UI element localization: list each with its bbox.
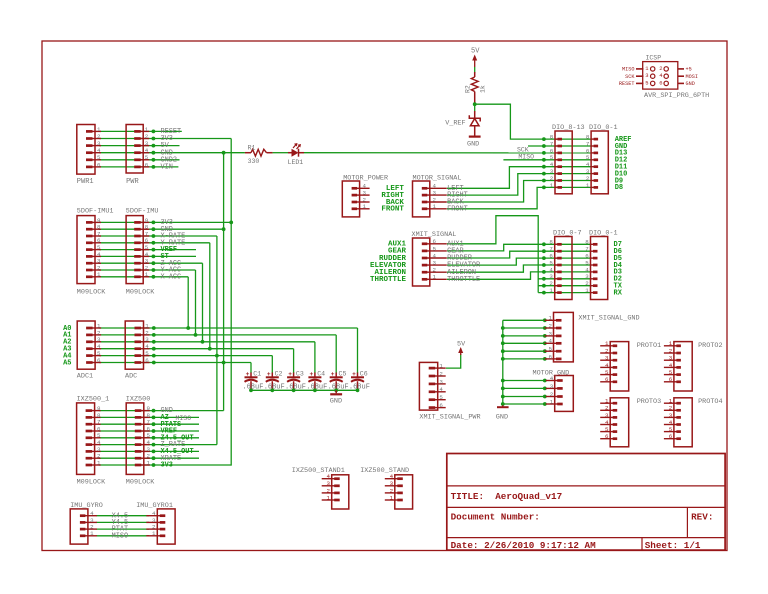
svg-text:1: 1 xyxy=(147,459,151,466)
label PWR xyxy=(126,178,139,186)
label PWR1 xyxy=(77,178,94,186)
svg-text:IXZ500: IXZ500 xyxy=(126,395,150,403)
wire MISO to DIO pin 5 xyxy=(503,159,591,161)
svg-text:1: 1 xyxy=(669,398,673,405)
svg-text:6: 6 xyxy=(97,161,101,168)
svg-text:C3: C3 xyxy=(296,370,304,377)
svg-text:5: 5 xyxy=(669,369,673,376)
label C6 xyxy=(360,370,368,377)
wire X-RATE vertical xyxy=(216,236,218,445)
wire drop to C2 xyxy=(271,356,273,373)
wire 5DOF-IMU net wires xyxy=(99,222,231,276)
svg-text:MISO: MISO xyxy=(112,532,129,540)
wire IMU_GYRO to IMU_GYRO1 xyxy=(96,516,149,536)
capacitor C3 xyxy=(287,371,300,390)
svg-text:THROTTLE: THROTTLE xyxy=(370,276,407,284)
svg-text:4: 4 xyxy=(669,419,673,426)
svg-text:FRONT: FRONT xyxy=(381,206,404,214)
svg-text:3: 3 xyxy=(605,355,609,362)
svg-text:SCK: SCK xyxy=(625,74,635,80)
connector PWR1 xyxy=(77,125,101,175)
svg-text:TITLE: AeroQuad_v17: TITLE: AeroQuad_v17 xyxy=(451,491,563,502)
svg-text:5: 5 xyxy=(605,426,609,433)
label PROTO4 xyxy=(698,398,722,406)
ICSP net labels MISO SCK RESET xyxy=(619,67,635,88)
label DIO_0-7 xyxy=(553,229,582,237)
svg-text:1: 1 xyxy=(90,530,94,537)
svg-text:MOTOR_GND: MOTOR_GND xyxy=(533,369,570,377)
net labels 5DOF signals xyxy=(161,219,186,281)
svg-text:6: 6 xyxy=(605,376,609,383)
svg-text:MISO: MISO xyxy=(518,154,534,161)
label M09LOCK (IXZ500_1) xyxy=(77,479,106,487)
svg-text:1: 1 xyxy=(152,530,156,537)
connector PWR xyxy=(126,125,149,174)
connector XMIT_SIGNAL_GND xyxy=(545,312,574,362)
svg-text:1: 1 xyxy=(145,271,149,278)
junction dots capacitor rail xyxy=(249,388,359,392)
wire AREF net to DIO_8-13 pin 8 xyxy=(475,104,591,139)
svg-text:+: + xyxy=(267,371,271,378)
svg-text:2: 2 xyxy=(433,267,437,274)
svg-text:5: 5 xyxy=(549,346,553,353)
svg-text:ICSP: ICSP xyxy=(646,54,662,61)
svg-text:VIN: VIN xyxy=(161,164,173,172)
power 5V symbol (AREF supply) xyxy=(471,48,480,67)
wire drop to C1 xyxy=(250,363,252,374)
svg-text:1: 1 xyxy=(586,182,590,189)
wire ADC net wires to capacitors xyxy=(99,328,358,363)
label XMIT_SIGNAL_PWR xyxy=(419,414,480,422)
capacitor C4 xyxy=(308,371,321,390)
svg-text:5V: 5V xyxy=(471,48,480,56)
svg-text:GND: GND xyxy=(467,140,479,148)
svg-text:+5: +5 xyxy=(686,67,692,73)
wire ELEVATOR to D5 xyxy=(447,258,591,265)
label DIO_8-13 xyxy=(552,124,585,132)
label ADC1 xyxy=(77,373,93,381)
connector PROTO3 xyxy=(600,398,629,447)
title block Document Number xyxy=(451,512,540,523)
connector IXZ500_1 xyxy=(77,403,101,475)
svg-text:3: 3 xyxy=(605,412,609,419)
svg-text:PROTO1: PROTO1 xyxy=(637,342,661,350)
label SCK xyxy=(517,147,529,154)
title block frame xyxy=(447,454,725,551)
capacitor C5 xyxy=(330,371,343,390)
wire drop to C4 xyxy=(314,342,316,373)
svg-text:3: 3 xyxy=(669,412,673,419)
svg-text:3: 3 xyxy=(97,140,101,147)
svg-text:2: 2 xyxy=(97,133,101,140)
svg-text:1: 1 xyxy=(327,494,331,501)
wire LED1 to SCK pin (D13) xyxy=(304,152,591,154)
net labels IXZ500 signals xyxy=(161,407,194,469)
svg-text:C1: C1 xyxy=(253,370,261,377)
wire X-ACC vertical xyxy=(187,277,189,328)
value .68uF C6 xyxy=(349,384,370,392)
label IXZ500 xyxy=(126,395,150,403)
svg-text:6: 6 xyxy=(659,79,662,86)
svg-text:5DOF-IMU1: 5DOF-IMU1 xyxy=(77,208,114,216)
svg-text:DIO_0-1: DIO_0-1 xyxy=(589,229,618,237)
wire TX RX stubs xyxy=(538,279,590,293)
label AVR_SPI_PRG_6PTH xyxy=(644,92,709,100)
label ICSP xyxy=(646,54,662,61)
value .68uF C1 xyxy=(242,384,263,392)
wire GND bus vertical xyxy=(223,153,225,411)
svg-text:5V: 5V xyxy=(457,340,466,348)
svg-text:1: 1 xyxy=(390,494,394,501)
value 330 xyxy=(248,158,260,165)
wire MOTOR_GND pin wires xyxy=(503,381,545,405)
net labels LEFT RIGHT BACK FRONT (motor power) xyxy=(381,185,404,214)
junction R2-zener node xyxy=(473,102,477,106)
junction dots ADC verticals xyxy=(186,326,219,357)
power 5V symbol (xmit pwr) xyxy=(457,340,466,355)
svg-text:3: 3 xyxy=(439,378,443,385)
junction GND bus taps xyxy=(222,151,226,365)
svg-text:V_REF: V_REF xyxy=(445,120,465,128)
svg-text:Date: 2/26/2010 9:17:12 AM: Date: 2/26/2010 9:17:12 AM xyxy=(451,540,596,551)
svg-text:6: 6 xyxy=(549,353,553,360)
wire XMIT_SIGNAL_PWR pin1 to 5V xyxy=(446,354,461,368)
svg-text:6: 6 xyxy=(433,238,437,245)
label C3 xyxy=(296,370,304,377)
value .68uF C2 xyxy=(264,384,285,392)
svg-text:AVR_SPI_PRG_6PTH: AVR_SPI_PRG_6PTH xyxy=(644,92,709,100)
svg-text:6: 6 xyxy=(605,433,609,440)
label PROTO3 xyxy=(637,398,661,406)
svg-text:1k: 1k xyxy=(480,85,487,93)
wire AUX1 to D2 xyxy=(447,216,591,279)
wire drop to C3 xyxy=(293,349,295,373)
label PROTO1 xyxy=(637,342,661,350)
junction dots IXZ500 nets xyxy=(152,409,156,467)
drawing frame xyxy=(42,41,727,551)
svg-text:Document Number:: Document Number: xyxy=(451,512,540,523)
svg-text:FRONT: FRONT xyxy=(447,205,468,213)
svg-text:DIO_0-7: DIO_0-7 xyxy=(553,229,582,237)
ground symbol capacitor rail xyxy=(330,390,342,405)
resistor R2 xyxy=(471,72,478,104)
label XMIT_SIGNAL xyxy=(412,231,457,239)
label IXZ500_STAND xyxy=(360,467,409,475)
wire Y-RATE vertical xyxy=(209,243,211,349)
wire GEAR to D7 xyxy=(447,244,591,251)
svg-text:4: 4 xyxy=(439,386,443,393)
svg-text:2: 2 xyxy=(550,391,554,398)
svg-text:MOTOR_POWER: MOTOR_POWER xyxy=(343,174,388,182)
svg-text:REV:: REV: xyxy=(691,512,713,523)
label IMU_GYRO xyxy=(70,502,103,510)
junction 3V3 bus taps xyxy=(229,221,233,225)
wire MOTOR_SIGNAL BACK to D8-2 xyxy=(447,181,591,203)
connector XMIT_SIGNAL xyxy=(413,238,447,286)
capacitor C1 xyxy=(245,371,258,390)
svg-text:1: 1 xyxy=(433,203,437,210)
svg-text:1: 1 xyxy=(669,340,673,347)
title block TITLE text xyxy=(451,491,563,502)
svg-text:M09LOCK: M09LOCK xyxy=(77,289,106,297)
svg-text:XMIT_SIGNAL_GND: XMIT_SIGNAL_GND xyxy=(578,315,639,323)
connector ADC xyxy=(125,321,149,369)
svg-text:2: 2 xyxy=(669,405,673,412)
label MISO xyxy=(518,154,534,161)
label C1 xyxy=(253,370,261,377)
connector DIO_0-1 upper xyxy=(586,131,608,194)
svg-text:5: 5 xyxy=(145,154,149,161)
wire MOTOR_SIGNAL LEFT to D10 xyxy=(447,167,591,189)
ICSP net labels +5 MOSI GND xyxy=(686,67,698,88)
svg-text:1: 1 xyxy=(605,398,609,405)
label C4 xyxy=(317,370,325,377)
svg-text:2: 2 xyxy=(145,133,149,140)
svg-text:3: 3 xyxy=(327,480,331,487)
wire DIO pin7 GND stub xyxy=(528,145,591,147)
resistor R1 xyxy=(245,149,273,156)
svg-text:3: 3 xyxy=(549,330,553,337)
svg-text:3: 3 xyxy=(145,140,149,147)
svg-text:3V3: 3V3 xyxy=(161,462,173,470)
svg-text:DIO_8-13: DIO_8-13 xyxy=(552,124,585,132)
svg-text:5: 5 xyxy=(645,79,648,86)
svg-text:MOTOR_SIGNAL: MOTOR_SIGNAL xyxy=(413,174,462,182)
svg-text:THROTTLE: THROTTLE xyxy=(447,276,480,284)
wire AILERON to D4 xyxy=(447,265,591,272)
connector DIO_0-7 xyxy=(549,237,572,300)
label PROTO2 xyxy=(698,342,722,350)
svg-text:3: 3 xyxy=(433,260,437,267)
svg-text:2: 2 xyxy=(669,347,673,354)
svg-text:1: 1 xyxy=(550,182,554,189)
svg-text:D8: D8 xyxy=(615,184,623,192)
label DIO_0-1 lower xyxy=(589,229,618,237)
connector PROTO4 xyxy=(664,398,692,447)
junction dots XMIT_SIGNAL_GND pins xyxy=(543,318,547,360)
wire PWR1-PWR net wires xyxy=(99,131,245,167)
connector IMU_GYRO1 xyxy=(146,509,175,544)
junction dots ADC label points xyxy=(152,326,156,364)
svg-text:PWR: PWR xyxy=(126,178,139,186)
svg-text:RESET: RESET xyxy=(619,81,635,87)
svg-text:X-ACC: X-ACC xyxy=(161,273,182,281)
svg-text:+: + xyxy=(352,371,356,378)
title block Date xyxy=(451,540,596,551)
connector IMU_GYRO xyxy=(70,509,97,544)
capacitor C2 xyxy=(266,371,279,390)
svg-text:M09LOCK: M09LOCK xyxy=(77,479,106,487)
svg-text:4: 4 xyxy=(605,419,609,426)
connector XMIT_SIGNAL_PWR xyxy=(419,362,445,410)
connector PROTO1 xyxy=(600,340,629,391)
svg-text:+: + xyxy=(331,371,335,378)
svg-text:3: 3 xyxy=(550,383,554,390)
svg-text:2: 2 xyxy=(327,487,331,494)
label IXZ500_STAND1 xyxy=(292,467,345,475)
svg-text:1: 1 xyxy=(97,126,101,133)
net labels AUX1..THROTTLE bold green xyxy=(370,241,407,285)
svg-text:6: 6 xyxy=(97,357,101,364)
connector IXZ500 xyxy=(126,403,150,475)
svg-text:1: 1 xyxy=(550,398,554,405)
label ADC xyxy=(125,373,137,381)
svg-text:SCK: SCK xyxy=(517,147,529,154)
svg-text:C2: C2 xyxy=(275,370,283,377)
svg-text:C4: C4 xyxy=(317,370,325,377)
svg-text:R1: R1 xyxy=(248,144,256,151)
junction dots DIO_0-7 pins xyxy=(542,242,546,294)
svg-text:Sheet: 1/1: Sheet: 1/1 xyxy=(645,540,701,551)
svg-text:GND: GND xyxy=(330,397,342,405)
junction dots DIO_8-13 pins xyxy=(542,137,546,189)
connector ADC1 xyxy=(77,321,101,369)
svg-text:5: 5 xyxy=(97,154,101,161)
svg-text:RX: RX xyxy=(614,289,623,297)
label LED1 xyxy=(288,159,304,166)
value .68uF C4 xyxy=(306,384,327,392)
value .68uF C3 xyxy=(285,384,306,392)
svg-text:330: 330 xyxy=(248,158,260,165)
svg-text:C6: C6 xyxy=(360,370,368,377)
svg-text:6: 6 xyxy=(145,357,149,364)
junction dots ground bus xyxy=(501,326,505,406)
svg-text:PROTO2: PROTO2 xyxy=(698,342,722,350)
junction dots MOTOR_GND pins xyxy=(543,379,547,406)
svg-text:1: 1 xyxy=(605,340,609,347)
connector 5DOF-IMU1 xyxy=(77,216,101,284)
svg-text:XMIT_SIGNAL_PWR: XMIT_SIGNAL_PWR xyxy=(419,414,480,422)
svg-text:3: 3 xyxy=(669,355,673,362)
connector IXZ500_STAND xyxy=(385,473,413,509)
label IXZ500_1 xyxy=(77,395,110,403)
LED LED1 xyxy=(288,143,304,157)
svg-text:4: 4 xyxy=(97,147,101,154)
net labels LEFT RIGHT BACK FRONT (motor signal) xyxy=(447,185,468,214)
title block Sheet xyxy=(645,540,701,551)
svg-text:4: 4 xyxy=(549,338,553,345)
svg-text:2: 2 xyxy=(659,65,662,72)
net labels RESET 3V3 5V GND GND2 VIN xyxy=(161,128,182,172)
connector ICSP AVR_SPI_PRG_6PTH xyxy=(636,62,684,90)
svg-text:IXZ500_1: IXZ500_1 xyxy=(77,395,110,403)
svg-text:1: 1 xyxy=(549,287,553,294)
wire capacitor ground rail xyxy=(251,389,358,391)
svg-text:1: 1 xyxy=(433,274,437,281)
connector DIO_0-1 lower xyxy=(585,237,607,300)
label M09LOCK (5DOF-IMU1) xyxy=(77,289,106,297)
wire drop to C5 xyxy=(335,335,337,373)
label DIO_0-1 upper xyxy=(589,124,618,132)
svg-text:1: 1 xyxy=(549,315,553,322)
svg-text:3: 3 xyxy=(390,480,394,487)
svg-text:1: 1 xyxy=(585,287,589,294)
svg-text:1: 1 xyxy=(97,459,101,466)
zener diode V_REF xyxy=(469,111,480,136)
svg-text:2: 2 xyxy=(605,347,609,354)
svg-text:DIO_0-1: DIO_0-1 xyxy=(589,124,618,132)
wire IXZ500 net wires xyxy=(99,411,231,465)
svg-text:MISO: MISO xyxy=(176,415,192,422)
wire junction to zener xyxy=(474,104,476,111)
svg-text:5: 5 xyxy=(669,426,673,433)
value 1k xyxy=(480,85,487,93)
svg-text:IMU_GYRO1: IMU_GYRO1 xyxy=(136,502,173,510)
label 5DOF-IMU1 xyxy=(77,208,114,216)
junction dots PWR nets xyxy=(152,130,156,169)
svg-text:2: 2 xyxy=(390,487,394,494)
svg-text:ADC1: ADC1 xyxy=(77,373,93,381)
wire R1 to LED1 xyxy=(273,152,288,154)
svg-text:2: 2 xyxy=(605,405,609,412)
net labels D7 D6 D5 D4 D3 D2 TX RX xyxy=(614,241,623,297)
net labels X4.5 Y4.5 PTAT MISO xyxy=(112,512,129,540)
connector 5DOF-IMU xyxy=(126,216,149,284)
svg-text:XMIT_SIGNAL: XMIT_SIGNAL xyxy=(412,231,457,239)
wire 3V3 bus vertical xyxy=(230,139,232,466)
svg-text:+: + xyxy=(288,371,292,378)
wire RUDDER to D6 xyxy=(447,251,591,258)
svg-text:2: 2 xyxy=(549,322,553,329)
svg-text:IMU_GYRO: IMU_GYRO xyxy=(70,502,103,510)
svg-text:ADC: ADC xyxy=(125,373,137,381)
label IMU_GYRO1 xyxy=(136,502,173,510)
label M09LOCK (5DOF-IMU) xyxy=(126,289,155,297)
wire Y-ACC vertical xyxy=(195,270,197,335)
label XMIT_SIGNAL_GND xyxy=(578,315,639,323)
junction dots 5DOF nets xyxy=(152,221,156,279)
label MOTOR_SIGNAL xyxy=(413,174,462,182)
svg-text:5DOF-IMU: 5DOF-IMU xyxy=(126,208,159,216)
svg-text:5: 5 xyxy=(433,245,437,252)
connector MOTOR_SIGNAL xyxy=(413,181,447,217)
connector PROTO2 xyxy=(664,340,692,391)
wire 5V to R2 xyxy=(474,67,476,73)
wire MOTOR_SIGNAL RIGHT to D9 xyxy=(447,174,591,196)
value .68uF C5 xyxy=(328,384,349,392)
label C5 xyxy=(339,370,347,377)
svg-text:C5: C5 xyxy=(339,370,347,377)
svg-text:M09LOCK: M09LOCK xyxy=(126,289,155,297)
ground symbol below V_REF xyxy=(467,137,481,149)
svg-text:+: + xyxy=(310,371,314,378)
wire ground bus vertical (XMIT/MOTOR GND) xyxy=(502,320,504,405)
label C2 xyxy=(275,370,283,377)
net labels AREF GND D13 D12 D11 D10 D9 D8 xyxy=(615,136,632,192)
svg-text:6: 6 xyxy=(145,161,149,168)
svg-text:2: 2 xyxy=(439,370,443,377)
svg-text:M09LOCK: M09LOCK xyxy=(126,479,155,487)
net labels AUX1..THROTTLE gray xyxy=(447,240,480,284)
label MOTOR_POWER xyxy=(343,174,388,182)
svg-text:MOSI: MOSI xyxy=(686,74,698,80)
wire XMIT_SIGNAL_GND pin wires xyxy=(503,320,545,359)
wire THROTTLE to D3 xyxy=(447,272,591,279)
ground symbol bus xyxy=(496,405,509,422)
connector IXZ500_STAND1 xyxy=(322,473,349,509)
connector MOTOR_POWER xyxy=(342,181,369,217)
svg-text:PWR1: PWR1 xyxy=(77,178,94,186)
label 5DOF-IMU xyxy=(126,208,159,216)
label V_REF xyxy=(445,120,465,128)
svg-text:A5: A5 xyxy=(63,359,71,367)
svg-text:IXZ500_STAND: IXZ500_STAND xyxy=(360,467,409,475)
title block REV xyxy=(691,512,713,523)
svg-text:4: 4 xyxy=(145,147,149,154)
svg-text:MISO: MISO xyxy=(622,67,634,73)
label MOTOR_GND xyxy=(533,369,570,377)
svg-text:6: 6 xyxy=(669,376,673,383)
